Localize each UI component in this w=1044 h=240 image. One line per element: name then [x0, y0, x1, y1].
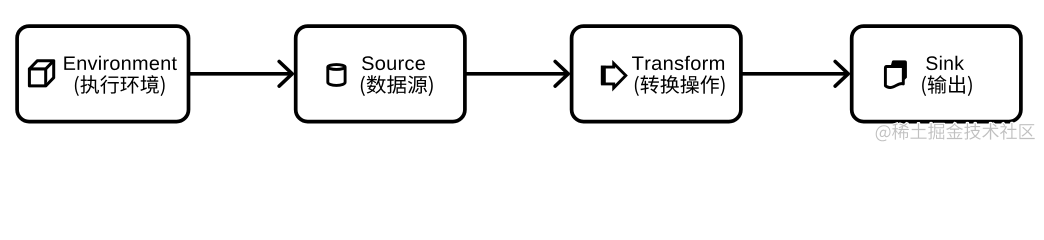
label (转换操作): [635, 75, 725, 96]
box Transform: [572, 26, 741, 122]
label Environment: [64, 56, 177, 70]
label Transform: [632, 56, 724, 70]
box Sink: [852, 26, 1021, 122]
wire arrow Environment to Source: [189, 72, 290, 76]
icon note sheets (Sink): [890, 60, 907, 81]
label Sink: [926, 56, 964, 70]
box Environment: [17, 26, 188, 122]
wire arrow Transform to Sink: [741, 72, 846, 76]
label (数据源): [361, 75, 433, 96]
label (输出): [922, 75, 972, 96]
icon block arrow (Transform): [603, 63, 626, 88]
wire arrow Source to Transform: [465, 72, 566, 76]
label (执行环境): [75, 75, 165, 96]
box Source: [296, 26, 465, 122]
icon database cylinder (Source): [328, 65, 345, 86]
label Source: [362, 56, 425, 70]
icon cube (Environment): [29, 61, 53, 86]
watermark @稀土掘金技术社区: [876, 123, 1035, 141]
